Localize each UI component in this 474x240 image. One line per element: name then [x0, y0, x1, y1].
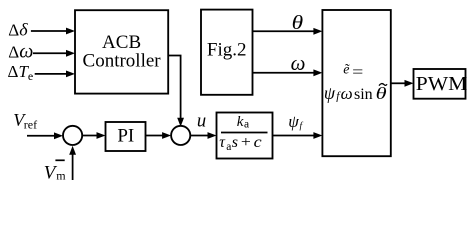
svg-text:θ: θ [292, 12, 304, 34]
svg-text:u: u [197, 111, 206, 131]
svg-text:+: + [241, 134, 251, 151]
svg-text:ẽ: ẽ [343, 63, 350, 78]
svg-text:PWM: PWM [416, 73, 468, 95]
svg-text:s: s [232, 134, 238, 151]
svg-text:Controller: Controller [83, 51, 162, 72]
svg-text:PI: PI [117, 126, 134, 147]
svg-text:a: a [226, 141, 231, 153]
svg-text:Δδ: Δδ [8, 20, 28, 40]
svg-text:m: m [56, 169, 66, 183]
svg-text:θ: θ [376, 84, 387, 103]
svg-text:Fig.2: Fig.2 [207, 40, 247, 61]
svg-text:c: c [254, 134, 262, 151]
svg-text:ψ: ψ [324, 83, 336, 103]
svg-text:Δω: Δω [8, 41, 33, 63]
svg-text:ref: ref [24, 118, 37, 132]
svg-text:ω: ω [341, 84, 353, 103]
svg-text:=: = [352, 64, 363, 81]
svg-text:ω: ω [291, 51, 306, 75]
svg-text:k: k [237, 114, 244, 130]
svg-text:sin: sin [354, 86, 373, 103]
svg-text:a: a [244, 119, 249, 131]
svg-text:ψ: ψ [288, 112, 299, 131]
